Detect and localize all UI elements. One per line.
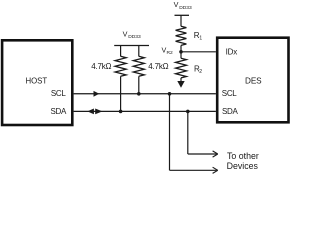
svg-text:DD33: DD33	[128, 34, 141, 40]
double arrow on SDA bus	[87, 109, 102, 115]
wire node to IDx	[181, 51, 216, 53]
DES box	[217, 38, 288, 123]
svg-text:DES: DES	[245, 77, 262, 86]
svg-text:4.7kΩ: 4.7kΩ	[148, 62, 168, 71]
svg-text:SCL: SCL	[222, 89, 238, 98]
node VR2 junction dot	[179, 50, 183, 54]
svg-text:1: 1	[199, 36, 202, 42]
arrowhead (open) upper	[213, 151, 218, 157]
wire SCL to other devices	[170, 169, 217, 171]
power VDD33 (divider rail)	[174, 0, 192, 15]
svg-text:HOST: HOST	[25, 76, 47, 85]
svg-text:2: 2	[199, 69, 202, 75]
resistor R2	[176, 52, 187, 82]
svg-text:SCL: SCL	[51, 89, 67, 98]
wire SDA to other devices	[188, 153, 217, 155]
svg-text:SDA: SDA	[50, 107, 67, 116]
HOST box	[2, 40, 72, 125]
junction dot on SCL	[137, 92, 141, 96]
wire SDA drop down	[187, 111, 189, 154]
svg-text:R2: R2	[167, 50, 174, 56]
svg-text:To other: To other	[227, 151, 259, 161]
wire SDA bus	[74, 110, 216, 112]
resistor R1	[176, 15, 187, 52]
arrow on SCL bus (to DES)	[94, 91, 100, 97]
svg-text:Devices: Devices	[227, 161, 259, 171]
resistor 4.7k pull-up (SCL)	[133, 46, 144, 94]
svg-text:V: V	[174, 0, 179, 9]
junction dot on SDA	[119, 110, 123, 114]
label VR2	[162, 46, 174, 56]
resistor 4.7k pull-up (SDA)	[115, 46, 126, 112]
junction dot on SCL (to other devices)	[168, 92, 172, 96]
svg-text:IDx: IDx	[226, 47, 238, 56]
junction dot on SDA (to other devices)	[186, 110, 190, 114]
svg-text:SDA: SDA	[222, 107, 239, 116]
wire SCL drop down	[169, 94, 171, 171]
ground (arrow down)	[177, 81, 184, 88]
label R1	[194, 31, 203, 42]
wire SCL bus	[74, 93, 216, 95]
svg-text:4.7kΩ: 4.7kΩ	[91, 62, 111, 71]
svg-text:V: V	[123, 29, 128, 38]
label To other Devices	[227, 151, 259, 171]
label R2	[194, 65, 202, 76]
arrowhead (open) lower	[213, 167, 218, 173]
svg-text:DD33: DD33	[179, 5, 192, 11]
power VDD33 (pull-up rail)	[114, 29, 149, 45]
